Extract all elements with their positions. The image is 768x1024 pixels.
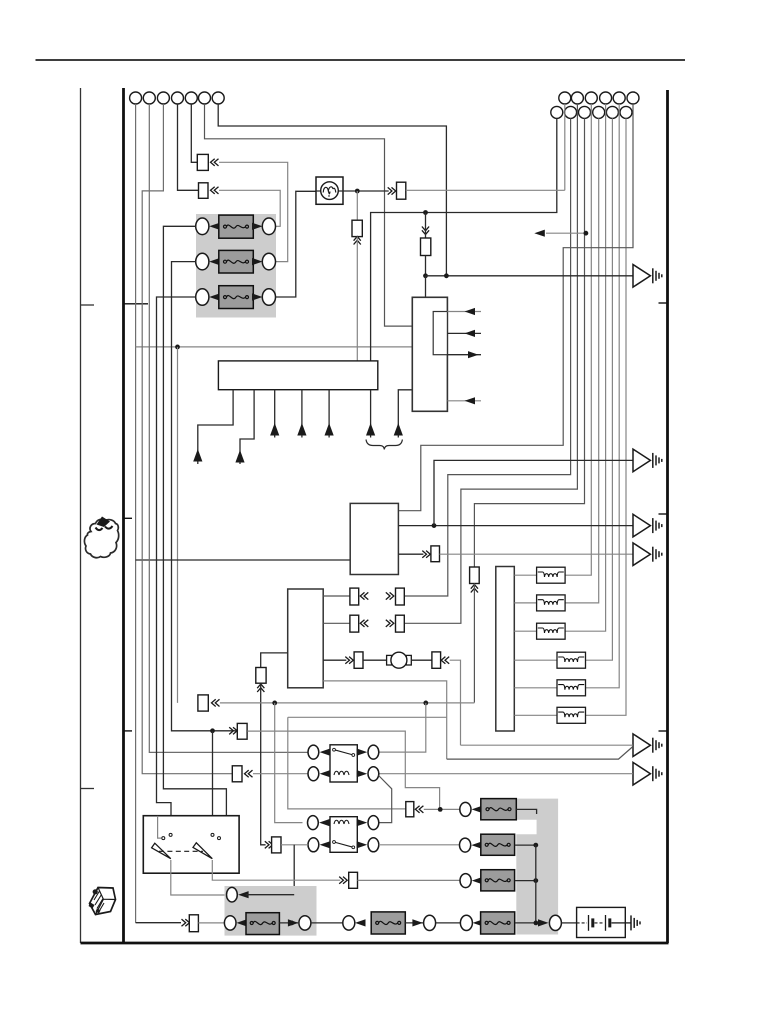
tick on thick border y=518 (124, 517, 133, 519)
wire branch x177 down to connector (177, 347, 179, 703)
wire ellipse6 to battery box (562, 922, 577, 924)
filter row1 arrow left (209, 223, 220, 230)
node arrow junction (584, 231, 589, 236)
coil box u2 (537, 595, 566, 611)
wire C2 to filter row1 right (219, 190, 280, 226)
coil box u1 (537, 567, 566, 583)
noise filter 2 box (219, 250, 254, 273)
switch lever 2 (193, 843, 212, 859)
wire relay coil chain diagonal (379, 776, 392, 823)
speaker SP6 (633, 762, 662, 785)
wire fuse node into amplifier top (425, 276, 427, 298)
ring terminal bottom row 2 (565, 106, 577, 118)
ring terminal top row 1 (559, 92, 571, 104)
wire terminal1 down long left feeder (135, 104, 137, 923)
tick on right border y=303 (659, 302, 668, 304)
wire C11 to relay1 coil left (253, 773, 308, 775)
wire relay2 row4 right to filter row B (379, 844, 460, 846)
filter row3 left ellipse (196, 289, 209, 306)
wire ellipse4 to ellipse5 (436, 922, 461, 924)
wire terminal2 down to relay row (149, 104, 308, 752)
wire pivot2 down to filter row C (212, 860, 340, 880)
relay R2 row3 left ellipse (308, 816, 319, 830)
wire terminal7 right at y126 down to speaker line (218, 104, 446, 276)
wire filter row2 left (172, 262, 238, 731)
wire stem top c1 (564, 104, 566, 190)
noise filter A box (481, 799, 517, 820)
noise filter B box (481, 834, 515, 855)
lead 2 under junction block (240, 390, 254, 464)
shaded area noise filters (196, 214, 276, 318)
ground symbol battery (631, 915, 640, 930)
wire inline ellipse to branch (246, 894, 294, 896)
right thick border line (666, 90, 669, 943)
chain ellipse 1 (224, 916, 236, 930)
relay R1 switch symbol (334, 750, 353, 755)
wire stem bottom c1 to left bus (371, 118, 557, 361)
connector C12 rect (272, 837, 281, 853)
filter row2 left ellipse (196, 253, 209, 270)
connector C4 rect (352, 220, 362, 236)
chevrons into C5 (422, 551, 430, 558)
wire branch down to switch contact (212, 731, 214, 834)
coil box l2 (557, 680, 586, 696)
wire C7 down to relay2 connector (261, 683, 266, 845)
chevrons up under C6 (471, 585, 478, 593)
signal direction arrow on stem b3 (546, 232, 586, 234)
node bus tap1 (272, 701, 277, 706)
filter row C ellipse (460, 874, 471, 888)
wire terminal4 to connector C2 (178, 104, 199, 190)
relay R2 coil symbol (334, 820, 349, 824)
connector C2 rect (199, 183, 209, 199)
amplifier block (tall right) (496, 567, 515, 732)
switch contact d (218, 837, 221, 840)
wire gray branch at y347 to control block (136, 346, 413, 348)
wire filter row3 right to motor antenna (276, 191, 317, 297)
tick on right border y=514 (659, 513, 668, 515)
control block (tall) (412, 297, 447, 411)
control block arrow a4 (447, 400, 481, 402)
relay R1 box (330, 745, 357, 782)
ring terminal top row 2 (571, 92, 583, 104)
wire motor to MR conn (411, 659, 432, 661)
ring terminal top row 6 (627, 92, 639, 104)
wire C10 to filter row A (424, 808, 460, 810)
blob top marks (97, 517, 111, 528)
lead 7 from control block bottom (398, 390, 412, 438)
wire B row4 down right side (323, 681, 447, 759)
wire block A right y525 to speaker3 (398, 525, 633, 527)
chain ellipse 3 (343, 916, 355, 930)
relay R2 row4 right ellipse (368, 838, 379, 852)
battery pictogram (isometric box) (90, 888, 116, 915)
tick on thin border y=788 (81, 788, 95, 790)
wire terminal5 to connector C1 (191, 104, 197, 162)
wire box1 right (279, 922, 298, 924)
wire C14 to chain ellipse1 (198, 922, 224, 924)
chevrons into C13 (339, 877, 347, 884)
chain ellipse 5 (460, 915, 472, 930)
wire speaker 1 feed (426, 275, 633, 277)
wire amp to coil l3 (514, 714, 557, 716)
speaker SP1 (633, 265, 662, 288)
switch contact a (162, 837, 165, 840)
wire block A right y554 (398, 553, 423, 555)
relay R2 row3 right ellipse (368, 816, 379, 830)
connector C10 rect («, row A) (406, 802, 414, 817)
control block inner tab (433, 312, 447, 355)
node motor line tap (355, 189, 360, 194)
chevrons into C14 (182, 919, 190, 926)
wire ground bus vertical (535, 845, 537, 923)
chevrons into C12 (265, 841, 273, 848)
wire terminal3 jog down (142, 104, 232, 774)
chevrons into C3 (388, 187, 396, 194)
ring terminal bottom row 1 (551, 106, 563, 118)
wire tap down to connector C4 (356, 191, 358, 220)
chevrons up under C7 (257, 684, 264, 692)
wire stub to contact a (158, 816, 162, 838)
wire amp to coil u3 (514, 630, 536, 632)
wire stem bottom c5 to coil box l1 (586, 118, 613, 660)
wire stem top c3 to coil box u1 (565, 104, 591, 575)
ring terminal top row 3 (585, 92, 597, 104)
connector C5 rect (431, 546, 440, 562)
chain ellipse 2 (299, 916, 311, 930)
wire battery to ground (625, 922, 631, 924)
wire filter row1 left (163, 226, 226, 837)
wire B left to connector C7 (261, 653, 288, 668)
wire motor row to speaker5 line (450, 660, 461, 745)
relay R1 row1 left ellipse (308, 745, 319, 759)
ring terminal bottom row 6 (620, 106, 632, 118)
filter row3 arrow left (209, 293, 220, 300)
node row A tap (438, 807, 443, 812)
tick on thin border y=305 (81, 304, 95, 306)
filter row A ellipse (460, 802, 471, 816)
wire fuse to speaker line (425, 256, 427, 276)
wire staircase vertical x288 (288, 717, 406, 809)
wire branch up to speaker2 line (434, 460, 633, 525)
chevrons C10 (415, 806, 423, 813)
ring terminal top row 4 (600, 92, 612, 104)
speaker SP3 (633, 514, 662, 537)
antenna motor M1 square (316, 177, 343, 204)
wire branch y560 to relay block A (136, 559, 351, 561)
relay R1 row1 right ellipse (368, 745, 379, 759)
connector C1 rect (197, 154, 208, 170)
switch lever 1 (152, 843, 171, 859)
relay R1 coil symbol (334, 771, 349, 775)
wire C12 to relay2 row4 (281, 844, 308, 846)
chain ellipse 6 (549, 915, 561, 930)
wire amp to coil u2 (514, 602, 536, 604)
chevrons B2L (360, 620, 368, 627)
wire stem top c5 to coil box l2 (586, 104, 620, 688)
chevrons B1R (386, 592, 394, 599)
connector C13 rect (349, 872, 358, 888)
wire second feed diagonal to sp5 (447, 747, 633, 760)
left thick border line (122, 88, 125, 943)
junction connector block (long rect) (218, 361, 377, 390)
wire box3 right (515, 922, 543, 924)
chain wire from feeder (136, 922, 181, 924)
connector C14 rect (189, 915, 198, 932)
connector ring terminal 5 (185, 92, 197, 104)
control block arrow a1 (447, 311, 481, 313)
control block arrow a2 (447, 332, 481, 334)
chevrons MR (441, 657, 449, 664)
wire tap1 down to relay2 coil row (275, 703, 303, 823)
coil box l3 (557, 707, 586, 723)
connector ring terminal 7 (212, 92, 224, 104)
switch contact c (211, 833, 214, 836)
wire box2 right (405, 922, 423, 924)
node junction y347 branch (175, 345, 180, 350)
tick on right border y=731 (659, 730, 668, 732)
relay R2 switch symbol (334, 842, 353, 847)
wire filter C right (515, 880, 536, 882)
antenna motor inner circle (316, 190, 343, 192)
node fuse tap on b1 line (423, 210, 428, 215)
chevrons C11 (245, 770, 253, 777)
connector ring terminal 3 (157, 92, 169, 104)
wire motor row from B (323, 659, 346, 661)
connector ring terminal 4 (172, 92, 184, 104)
speaker SP2 (633, 449, 662, 472)
wire to motor (363, 659, 387, 661)
chain filter box 1 (246, 913, 279, 935)
relay block A (350, 503, 398, 574)
wire pivot1 down to inline ellipse (171, 860, 225, 895)
wire B row1 (323, 595, 350, 597)
chevrons C1 (211, 159, 219, 166)
filter row3 right ellipse (262, 289, 275, 306)
shaded area bottom-left filter (225, 886, 317, 936)
node filter B (533, 843, 538, 848)
wire C1 to filter row2 right (219, 162, 288, 261)
wire branch down to inline ellipse (245, 845, 294, 895)
noise filter C box (481, 870, 515, 891)
wire bus y703 (220, 702, 475, 704)
battery box (577, 907, 626, 937)
node filter C (533, 878, 538, 883)
wire terminal6 right at y139 (205, 104, 413, 326)
connector MR rect (432, 652, 441, 668)
switch contact b (169, 833, 172, 836)
wire motor to connector C3 (343, 190, 389, 192)
relay R2 row4 left ellipse (308, 838, 319, 852)
wire into fuse (425, 213, 427, 239)
wire C4 down to junction box (356, 237, 358, 361)
lead 1 under junction block (198, 390, 233, 464)
node chain branch up (289, 921, 294, 926)
wire stem bottom c6 to coil box l3 (586, 118, 627, 715)
connector ring terminal 1 (top-left) (130, 92, 142, 104)
chevrons C2 (211, 187, 219, 194)
noise filter 3 box (219, 286, 254, 309)
connector C9 rect (relay feed) (237, 723, 247, 739)
lead 4 under junction block (301, 390, 303, 438)
filter row3 arrow right (252, 293, 263, 300)
ring terminal bottom row 4 (593, 106, 605, 118)
wire B row2 (323, 622, 350, 624)
connector ring terminal 6 (199, 92, 211, 104)
connector ring terminal 2 (143, 92, 155, 104)
wire C3 to top ring c1 (406, 189, 565, 191)
lead 5 under junction block (328, 390, 330, 438)
chevrons up under C4 (354, 237, 361, 245)
node sp2 branch (432, 523, 437, 528)
ring terminal bottom row 3 (579, 106, 591, 118)
connector B2L rect (350, 615, 359, 632)
wire amp to coil u1 (514, 574, 536, 576)
wire stem top c2 staircase to block B row2 (404, 104, 577, 623)
bottom border line (81, 942, 669, 945)
chain ellipse 4 (424, 915, 436, 930)
relay R2 box (330, 817, 357, 853)
chevrons B2R (386, 620, 394, 627)
wire tap2 down to relay1 switch right (378, 703, 425, 752)
filter row2 right ellipse (262, 253, 275, 270)
wire stem top c6 long staircase to block A (398, 104, 633, 511)
filter row2 arrow left (209, 258, 220, 265)
filter row1 right ellipse (262, 218, 275, 235)
chain filter box 2 (371, 912, 405, 934)
node bus tap2 (423, 701, 428, 706)
wire ellipse2 to ellipse3 (311, 922, 343, 924)
filter row1 arrow right (252, 223, 263, 230)
speaker SP4 (633, 543, 662, 566)
wire filter A right hook (516, 809, 536, 814)
wire C6 down to connector bus y702 (473, 584, 475, 703)
page top rule (36, 59, 686, 61)
connector B1L rect (350, 588, 359, 605)
wire stem bottom c3 staircase to connector (474, 118, 584, 567)
node ground bus join (534, 921, 539, 926)
inline ellipse above chain (227, 887, 238, 902)
node speaker line left (423, 273, 428, 278)
body harness pictogram (blob) (84, 519, 118, 557)
fuse F1 rect (421, 238, 431, 256)
lead 3 under junction block (274, 390, 276, 438)
node c7 tap on speaker1 line (444, 273, 449, 278)
control block arrow a3 (447, 354, 481, 356)
battery cells (577, 922, 587, 924)
wire filter B right (515, 844, 536, 846)
chevrons into C9 (229, 727, 237, 734)
connector C7 rect (256, 668, 266, 684)
relay R1 row2 right ellipse (368, 767, 379, 781)
wire amp to coil l2 (514, 687, 557, 689)
filter row1 left ellipse (196, 218, 209, 235)
ring terminal bottom row 5 (606, 106, 618, 118)
tick on thick border y=304 (124, 303, 149, 305)
connector ML rect (354, 652, 363, 668)
wire C9 staircase (247, 731, 439, 807)
lead 6 under junction block (370, 390, 372, 438)
wire stem top c4 to coil box u3 (565, 104, 606, 631)
wire speaker6 feed from relay1 coil (378, 773, 633, 775)
chevrons down above fuse (422, 227, 429, 235)
connector C11 rect (circle3 row) (232, 766, 242, 782)
connector C8 rect (y703 bus) (198, 695, 208, 711)
left thin border line (80, 88, 82, 943)
relay R1 row2 left ellipse (308, 767, 319, 781)
chevrons C8 (212, 699, 220, 706)
motor M2 (circle with tabs) (387, 655, 392, 665)
filter row2 arrow right (252, 258, 263, 265)
chain filter box 3 (481, 912, 515, 934)
block B (audio unit) (288, 589, 324, 688)
wire stem bottom c2 staircase to block B row1 (404, 118, 570, 596)
chevrons B1L (360, 592, 368, 599)
connector C6 rect (stem b3) (470, 567, 480, 584)
ring terminal top row 5 (613, 92, 625, 104)
chevrons into M-conn L (345, 657, 353, 664)
shaded area right filter column (516, 799, 558, 935)
wire staircase top run (288, 716, 447, 718)
connector B1R rect (396, 588, 405, 605)
tick on thick border y=731 (124, 730, 133, 732)
filter row B ellipse (460, 838, 471, 852)
wire amp to coil l1 (514, 659, 557, 661)
noise filter 1 box (219, 215, 254, 238)
main switch box (143, 816, 239, 874)
curly brace under leads 6-7 (366, 440, 402, 450)
connector C3 rect (397, 182, 406, 199)
coil box u3 (537, 623, 566, 639)
wire stem bottom c4 to coil box u2 (565, 118, 599, 603)
wire C13 to filter row C ellipse (358, 879, 460, 881)
speaker SP5 (633, 734, 662, 757)
wire filter row3 left (157, 297, 196, 834)
dashed link between levers (159, 850, 203, 852)
connector B2R rect (396, 615, 405, 632)
wire speaker5 feed (461, 744, 633, 746)
wire C5 to speaker4 (440, 553, 633, 555)
coil box l1 (557, 652, 586, 668)
node relay box branch (210, 728, 215, 733)
